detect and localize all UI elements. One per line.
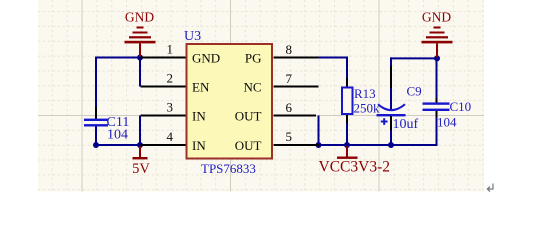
svg-text:104: 104 [437, 115, 457, 130]
svg-text:GND: GND [192, 51, 220, 66]
svg-text:104: 104 [107, 128, 128, 143]
wire: C10 bottom riser [436, 116, 438, 146]
svg-text:2: 2 [167, 71, 174, 86]
wire: C9 bottom riser [390, 129, 392, 146]
pin 7 NC [243, 71, 318, 95]
svg-text:OUT: OUT [235, 138, 262, 153]
svg-text:10uf: 10uf [393, 117, 419, 132]
svg-text:5V: 5V [132, 161, 150, 177]
svg-text:IN: IN [192, 138, 206, 153]
svg-text:OUT: OUT [235, 109, 262, 124]
svg-text:4: 4 [167, 129, 174, 144]
wire: C9 to GND right, horizontal [390, 57, 437, 59]
svg-text:TPS76833: TPS76833 [201, 161, 256, 176]
wire: C11 to 5V node, horizontal [96, 144, 140, 146]
svg-text:IN: IN [192, 109, 206, 124]
capacitor C11 [84, 107, 129, 143]
junction at 5V node [137, 142, 143, 148]
ground symbol GND right [422, 10, 453, 58]
svg-text:7: 7 [286, 71, 293, 86]
svg-text:8: 8 [286, 42, 293, 57]
pin 5 OUT [235, 129, 319, 153]
pin 1 GND [141, 42, 221, 66]
svg-text:R13: R13 [354, 86, 376, 101]
capacitor C10 [423, 98, 472, 130]
pin 4 IN [141, 129, 207, 153]
wire: GND to C11 top, horizontal [95, 57, 140, 59]
capacitor C9 (polarized) [377, 84, 422, 133]
junction at GND right [434, 55, 440, 61]
wire: C11 top riser, vertical [95, 57, 97, 108]
wire: C11 bottom riser [95, 127, 97, 147]
svg-text:U3: U3 [184, 29, 201, 44]
wire: pin6 riser [318, 116, 320, 147]
value label TPS76833 [201, 161, 256, 176]
svg-text:VCC3V3-2: VCC3V3-2 [319, 159, 390, 176]
svg-text:NC: NC [243, 80, 261, 95]
pin 3 IN [141, 100, 207, 124]
svg-text:5: 5 [286, 129, 293, 144]
wire: pin1 to pin2 riser [139, 58, 141, 87]
wire: C9 top riser [390, 57, 392, 110]
schematic sheet background [38, 0, 484, 192]
wire: output bus, horizontal [319, 144, 437, 146]
svg-text:250k: 250k [354, 101, 381, 116]
junction at pin1/GND [137, 55, 143, 61]
junction at C11 bottom [93, 142, 99, 148]
wire: R13 bottom riser [346, 121, 348, 145]
designator U3 [184, 29, 201, 44]
junction at R13/VCC node [344, 142, 350, 148]
junction at C9 bottom [388, 142, 394, 148]
wire: C10 top riser [436, 58, 438, 99]
pin 8 PG [245, 42, 319, 66]
svg-text:GND: GND [422, 10, 451, 25]
svg-text:EN: EN [192, 80, 210, 95]
wire: pin3 riser [139, 116, 141, 146]
IC U3 TPS76833 voltage regulator body [187, 44, 273, 159]
pin 6 OUT [235, 100, 316, 124]
resistor R13 [342, 78, 380, 123]
paragraph mark [487, 184, 493, 192]
svg-text:6: 6 [286, 100, 293, 115]
svg-text:PG: PG [245, 51, 262, 66]
ground symbol GND left [125, 10, 156, 57]
power symbol 5V [132, 146, 150, 177]
wire: R13 top riser [346, 57, 348, 80]
svg-text:3: 3 [167, 100, 174, 115]
pin 2 EN [141, 71, 210, 95]
svg-text:C9: C9 [407, 84, 422, 99]
junction at pin6/bus [316, 142, 322, 148]
svg-text:1: 1 [167, 42, 174, 57]
wire: pin8 to R13, horizontal [315, 57, 347, 59]
power symbol VCC3V3-2 [319, 146, 390, 176]
svg-text:C10: C10 [450, 99, 472, 114]
svg-text:GND: GND [125, 10, 154, 25]
